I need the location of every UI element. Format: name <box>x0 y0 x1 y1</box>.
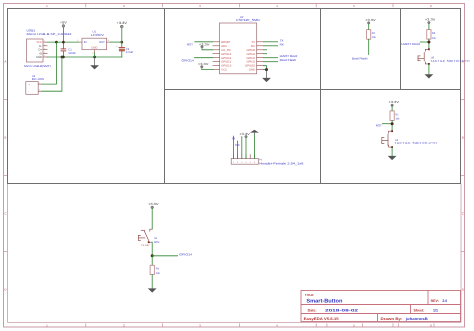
power +3.3V to VCC <box>198 62 213 70</box>
power +3.3V UART Boot pull-up <box>425 17 436 29</box>
wire GND <box>263 69 266 71</box>
svg-text:GND: GND <box>36 56 42 59</box>
wire P1 pin3 <box>241 137 243 159</box>
wire GPIO15 to GND <box>263 66 266 70</box>
svg-text:GND: GND <box>91 47 97 50</box>
svg-text:+3.3V: +3.3V <box>148 202 159 206</box>
junction GPIO14 node <box>151 254 154 257</box>
wire GPIO2 <box>263 61 277 63</box>
svg-text:TS-1187: TS-1187 <box>141 244 150 247</box>
svg-text:3: 3 <box>44 47 45 50</box>
svg-text:+3.3V: +3.3V <box>117 21 129 25</box>
wire RX <box>263 45 277 47</box>
svg-text:1: 1 <box>44 40 45 43</box>
wire RST label in <box>382 123 392 125</box>
svg-text:6: 6 <box>254 161 255 164</box>
resistor R4 10k <box>150 265 160 275</box>
wire GPIO5 stub <box>263 49 266 51</box>
svg-text:VCC: VCC <box>36 41 42 44</box>
connector USB1 Micro USB-B <box>24 28 72 68</box>
svg-text:Micro USB-B 5P_C40942: Micro USB-B 5P_C40942 <box>27 33 73 36</box>
svg-text:REV:: REV: <box>431 299 439 303</box>
wire U5 to ground <box>428 64 430 74</box>
svg-text:TACTILE SWITCH-PTH: TACTILE SWITCH-PTH <box>395 141 437 145</box>
svg-text:2: 2 <box>39 89 40 92</box>
svg-text:GPIO16: GPIO16 <box>221 53 231 56</box>
ground flipped on P1 pin6 <box>250 130 259 159</box>
wire GND rail <box>47 56 122 58</box>
svg-text:TX: TX <box>251 41 255 44</box>
resistor R1 10k <box>390 111 400 121</box>
svg-text:RX: RX <box>235 143 239 147</box>
switch U5 TACTILE SWITCH-PTH <box>418 48 430 64</box>
wire U1 OUT to +3.3V node <box>110 41 122 43</box>
wire GPIO4 stub <box>263 53 266 55</box>
pushbutton S1 BTN <box>138 229 152 243</box>
svg-text:+3.3V: +3.3V <box>389 100 400 104</box>
svg-text:RX: RX <box>251 45 255 48</box>
svg-text:+3.3V: +3.3V <box>239 132 250 136</box>
junction dots USB power <box>55 41 123 59</box>
svg-text:Boot Flash: Boot Flash <box>280 58 297 62</box>
svg-text:GPIO0: GPIO0 <box>246 57 255 60</box>
svg-text:2: 2 <box>44 43 45 46</box>
wire RESET <box>195 41 213 43</box>
section partition lines <box>8 9 461 184</box>
svg-text:Header-Female 2.54_1x6: Header-Female 2.54_1x6 <box>259 161 303 165</box>
svg-text:ID: ID <box>39 52 42 55</box>
svg-text:Boot Flash: Boot Flash <box>352 57 368 61</box>
svg-text:GPIO5: GPIO5 <box>246 49 255 52</box>
junction GPIO15/GND <box>265 68 268 71</box>
svg-text:RST: RST <box>376 124 382 128</box>
regulator U1 LF33CV <box>77 31 110 55</box>
wire U1 GND down <box>94 53 96 57</box>
ground button <box>148 288 157 292</box>
svg-text:Smart-Button: Smart-Button <box>306 298 342 304</box>
wire R2 to label <box>368 39 370 54</box>
svg-text:+3.3V: +3.3V <box>365 18 376 22</box>
connector U3 DC-005 <box>26 75 45 94</box>
svg-text:Drawn By:: Drawn By: <box>381 317 403 321</box>
svg-text:TX: TX <box>231 136 235 140</box>
svg-text:1/1: 1/1 <box>433 308 438 312</box>
wire P1 pin1 TX <box>232 136 234 158</box>
svg-text:DC-005: DC-005 <box>32 78 45 81</box>
svg-text:USB1: USB1 <box>27 28 36 32</box>
svg-text:GPIO15: GPIO15 <box>245 65 255 68</box>
module U2 ESP12F_SMD <box>213 16 264 74</box>
switch U4 TACTILE SWITCH-PTH <box>382 130 393 148</box>
wire DC-005 + to VCC <box>42 42 57 84</box>
svg-text:+3.3V: +3.3V <box>198 62 209 66</box>
power +5V <box>60 20 68 42</box>
svg-text:+3.3V: +3.3V <box>425 17 436 21</box>
svg-text:CH_PD: CH_PD <box>221 49 230 52</box>
wire U4 to ground <box>391 147 393 156</box>
power +3.3V RST pull-up <box>389 100 400 111</box>
svg-text:GPIO14: GPIO14 <box>221 57 231 60</box>
power +3.3V to CH_PD <box>199 43 213 50</box>
svg-text:johannesB: johannesB <box>405 317 429 321</box>
wire UART Boot label in <box>420 41 429 43</box>
svg-text:Micro USB-B(SMT): Micro USB-B(SMT) <box>24 65 51 68</box>
ground below U1 <box>90 57 99 69</box>
svg-text:B: B <box>462 136 464 140</box>
svg-text:LF33CV: LF33CV <box>91 33 104 37</box>
svg-text:2: 2 <box>237 161 238 164</box>
svg-text:Sheet:: Sheet: <box>414 308 425 312</box>
svg-text:VCC: VCC <box>221 69 227 72</box>
resistor R3 10k <box>427 30 437 40</box>
svg-text:EasyEDA V5.6.15: EasyEDA V5.6.15 <box>304 317 339 321</box>
svg-text:4: 4 <box>245 161 246 164</box>
ground RST switch <box>388 156 397 160</box>
svg-text:2018-08-02: 2018-08-02 <box>325 308 358 312</box>
svg-text:RESET: RESET <box>221 41 230 44</box>
svg-text:-: - <box>28 90 29 94</box>
svg-text:BTN: BTN <box>154 241 159 244</box>
svg-text:ESP12F_SMD: ESP12F_SMD <box>236 18 260 22</box>
junction RST node <box>391 122 394 125</box>
svg-text:GND: GND <box>249 69 255 72</box>
capacitor C2 2.2uF polarized <box>116 42 133 57</box>
power +3.3V Boot Flash pull-up <box>365 18 376 30</box>
svg-text:+3.3V: +3.3V <box>199 43 210 47</box>
power +3.3V button <box>148 202 159 229</box>
wire TX <box>263 41 277 43</box>
svg-text:GPIO4: GPIO4 <box>246 53 255 56</box>
svg-text:2.0: 2.0 <box>442 299 447 303</box>
wire P1 pin2 RX <box>237 141 239 159</box>
svg-text:GPIO2: GPIO2 <box>246 61 255 64</box>
power +3.3V on P1 pin4 <box>239 132 250 159</box>
svg-text:TITLE:: TITLE: <box>305 293 314 297</box>
svg-text:TACTILE SWITCH-PTH: TACTILE SWITCH-PTH <box>430 59 469 63</box>
svg-text:UART Boot: UART Boot <box>401 42 420 46</box>
ground ESP <box>262 70 271 83</box>
svg-text:RX: RX <box>280 42 284 46</box>
svg-text:4: 4 <box>44 51 45 54</box>
svg-text:5: 5 <box>250 161 251 164</box>
wire GPIO14 left <box>195 57 213 59</box>
svg-text:RST: RST <box>187 42 193 46</box>
svg-text:1: 1 <box>39 81 40 84</box>
svg-text:B: B <box>4 136 6 140</box>
svg-text:GPIO12: GPIO12 <box>221 61 231 64</box>
svg-text:5: 5 <box>44 55 45 58</box>
resistor R2 10k <box>367 30 377 40</box>
wire R4 to ground <box>151 275 153 289</box>
capacitor C1 100nF <box>61 42 76 57</box>
power +3.3V over C2 <box>117 21 129 42</box>
svg-text:3: 3 <box>241 161 242 164</box>
wire +5V rail <box>47 41 78 43</box>
junction UART node <box>427 41 430 44</box>
wire GPIO14 right <box>152 255 177 257</box>
svg-text:Date:: Date: <box>308 308 317 312</box>
wire node to R4 <box>151 256 153 265</box>
wire R3 to node <box>428 39 430 49</box>
ground UART switch <box>425 74 434 78</box>
svg-text:D-: D- <box>39 45 42 48</box>
svg-text:OUT: OUT <box>99 41 105 44</box>
wire R1 to node <box>391 120 393 131</box>
wire GPIO0 <box>263 57 277 59</box>
svg-text:IN: IN <box>84 41 87 44</box>
svg-text:+5V: +5V <box>60 20 68 24</box>
svg-text:A: A <box>4 60 6 64</box>
svg-text:1: 1 <box>233 161 234 164</box>
title block <box>301 291 461 322</box>
svg-text:GPIO14: GPIO14 <box>179 252 192 256</box>
svg-text:GPIO13: GPIO13 <box>221 65 231 68</box>
wire S1 to node <box>151 242 153 256</box>
svg-text:D+: D+ <box>38 49 42 52</box>
svg-text:2.2uF: 2.2uF <box>126 51 134 54</box>
connector P1 Header-Female 2.54_1x6 <box>231 155 304 166</box>
svg-text:ADC: ADC <box>221 45 227 48</box>
svg-text:100nF: 100nF <box>68 52 76 55</box>
svg-text:GPIO14: GPIO14 <box>182 58 195 62</box>
wire DC-005 - to GND <box>42 57 62 91</box>
